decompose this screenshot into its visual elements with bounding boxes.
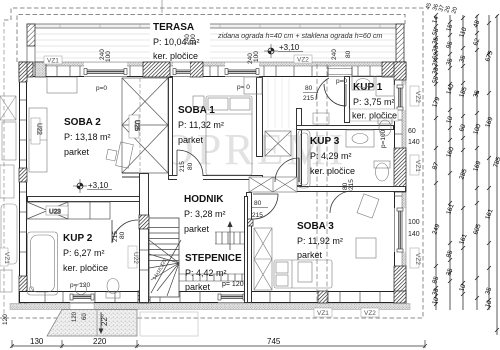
svg-text:80: 80 (305, 85, 313, 92)
svg-text:P: 4,29 m²: P: 4,29 m² (310, 151, 352, 161)
level mark terrace +3,10 (264, 43, 303, 58)
svg-text:215: 215 (112, 231, 119, 242)
svg-text:VZ2: VZ2 (364, 310, 376, 317)
svg-text:U23: U23 (49, 209, 61, 216)
svg-text:VZ2: VZ2 (414, 253, 421, 265)
bottom dimension line (10, 340, 427, 348)
svg-text:VZ1: VZ1 (47, 58, 59, 65)
svg-text:120: 120 (72, 311, 78, 322)
level mark hodnik +3,10 (73, 179, 112, 193)
svg-text:P: 11,92 m²: P: 11,92 m² (297, 236, 343, 246)
stairs STEPENICE (149, 218, 246, 297)
svg-text:ker. pločice: ker. pločice (310, 166, 355, 176)
desk with chair (116, 142, 134, 168)
furniture SOBA2: closet U22 (29, 77, 133, 172)
outer dotted strip (402, 66, 406, 304)
diagonal break line (151, 240, 181, 293)
svg-text:P: 4,42 m²: P: 4,42 m² (185, 268, 227, 278)
svg-text:745: 745 (267, 337, 281, 346)
upper flight risers (215, 232, 217, 244)
svg-text:P: 3,28 m²: P: 3,28 m² (184, 209, 226, 219)
svg-text:+3,10: +3,10 (279, 43, 300, 52)
VZ labels (0, 55, 421, 317)
parapet right return (396, 24, 404, 62)
entrance door gap (328-352) (328, 67, 352, 77)
svg-text:HODNIK: HODNIK (184, 194, 224, 205)
wall KUP3 left (297, 109, 302, 186)
wall SOBA2 / KUP2 horizontal (28, 197, 140, 202)
svg-text:KUP 1: KUP 1 (353, 82, 383, 93)
tiny numbers top-right (425, 2, 459, 15)
room labels (63, 82, 398, 292)
wall stairs left vertical (122, 173, 149, 303)
stair right wall (245, 197, 248, 303)
masonry joints (57, 66, 370, 77)
svg-text:140: 140 (408, 139, 420, 146)
room TERASA label (150, 20, 210, 61)
window band KUP1 right wall (395, 85, 406, 110)
svg-text:p= 0: p= 0 (237, 84, 250, 91)
svg-text:130: 130 (30, 337, 44, 346)
furniture KUP1 (352, 76, 394, 136)
window band SOBA1 (174-190) (173, 63, 190, 77)
foundation dotted strip (10, 304, 410, 310)
svg-text:p=0: p=0 (96, 85, 107, 92)
svg-text:80: 80 (119, 231, 126, 239)
left exterior wall (19, 62, 27, 304)
right dimension chains (436, 15, 497, 335)
svg-text:P: 11,32 m²: P: 11,32 m² (178, 120, 224, 130)
svg-text:U25: U25 (133, 120, 139, 132)
terrace decking lines (36, 34, 395, 58)
interior wall SOBA1 left (169, 78, 173, 180)
svg-text:ker. pločice: ker. pločice (352, 111, 397, 121)
door KUP3 (275, 158, 299, 182)
svg-text:U22: U22 (36, 123, 43, 135)
furniture SOBA1: bed (193, 77, 262, 175)
built-in closet band SOBA2/SOBA1 with X (122, 78, 168, 173)
furniture KUP2 (28, 232, 121, 298)
svg-text:STEPENICE: STEPENICE (185, 253, 242, 264)
wall SOBA3 left (247, 193, 252, 303)
svg-text:VZ1: VZ1 (317, 310, 329, 317)
corridor floor board lines (268, 78, 289, 128)
svg-text:100: 100 (190, 34, 197, 45)
wall KUP1 left (345, 77, 350, 123)
svg-text:KUP 3: KUP 3 (310, 136, 340, 147)
walking line with arrow up (229, 224, 231, 250)
wall KUP1 / KUP3 horizontal (297, 126, 394, 130)
neighbour unit fragments left edge (0, 96, 17, 292)
window band SOBA3 right wall (395, 208, 406, 252)
external ramp (47, 310, 137, 337)
section cut dashed lines VZ (317, 64, 327, 303)
svg-text:parket: parket (297, 250, 323, 260)
svg-text:215: 215 (348, 179, 355, 190)
svg-text:parket: parket (185, 282, 211, 292)
lower flight band (179, 273, 246, 275)
bottom exterior wall (20, 291, 407, 303)
svg-text:80: 80 (187, 162, 194, 170)
door KUP2 (112, 220, 138, 243)
window dim labels rotated (70, 34, 387, 289)
svg-text:P: 3,75 m²: P: 3,75 m² (353, 97, 395, 107)
door entrance arc (316, 78, 329, 100)
svg-text:p=100: p=100 (380, 129, 387, 148)
door KUP3 from SOBA3 (330, 191, 352, 213)
svg-text:60: 60 (408, 128, 416, 135)
svg-text:240: 240 (331, 49, 338, 60)
svg-text:VZ1: VZ1 (3, 252, 10, 264)
svg-text:140: 140 (408, 231, 420, 238)
door SOBA3 (253, 194, 278, 219)
corridor closet with X (265, 131, 291, 156)
svg-text:ker. pločice: ker. pločice (153, 51, 198, 61)
chain tick slashes (434, 13, 499, 332)
svg-text:220: 220 (93, 337, 107, 346)
svg-text:VZ1: VZ1 (414, 160, 421, 172)
corridor bottom closet band with X (249, 177, 297, 192)
svg-text:p=0: p=0 (336, 78, 347, 85)
chain numbers rotated (431, 15, 500, 309)
svg-text:TERASA: TERASA (153, 22, 194, 33)
parapet left return (27, 24, 35, 46)
svg-text:p= 120: p= 120 (70, 282, 90, 289)
svg-text:P: 6,27 m²: P: 6,27 m² (63, 248, 105, 258)
svg-text:SOBA 3: SOBA 3 (297, 221, 334, 232)
wall KUP3 / SOBA3 horizontal (297, 187, 406, 192)
terrace sliding door band (226-258) (225, 63, 259, 77)
furniture KUP3 (298, 130, 390, 188)
svg-text:parket: parket (184, 224, 210, 234)
svg-text:100: 100 (408, 219, 420, 226)
svg-text:215: 215 (303, 95, 314, 102)
svg-text:SOBA 1: SOBA 1 (178, 105, 215, 116)
outer dotted insulation strip (19, 62, 406, 66)
svg-text:P: 13,18 m²: P: 13,18 m² (64, 132, 111, 142)
main top wall band (19, 62, 406, 77)
svg-text:215: 215 (179, 161, 186, 172)
svg-text:VZ2: VZ2 (414, 91, 421, 103)
furniture SOBA3 (254, 194, 379, 290)
door KUP1 (324, 84, 346, 106)
terrace parapet top (27, 24, 404, 62)
window band SOBA2 (85-126) (84, 63, 127, 77)
svg-text:60: 60 (82, 313, 88, 320)
svg-text:U22: U22 (132, 252, 139, 264)
door SOBA1 (177, 150, 203, 176)
hatch piers in top wall (19, 62, 33, 77)
stair step numbers (152, 258, 169, 281)
window band bottom stairs (220-244) (218, 292, 246, 303)
wall SOBA1 bottom (169, 176, 263, 180)
svg-text:80: 80 (345, 50, 352, 58)
svg-text:p= 120: p= 120 (222, 281, 244, 288)
svg-text:215: 215 (252, 212, 263, 219)
svg-text:100: 100 (105, 51, 112, 62)
winder fan (149, 240, 179, 263)
svg-text:SOBA 2: SOBA 2 (64, 117, 101, 128)
svg-text:120: 120 (2, 314, 9, 325)
svg-text:+3,10: +3,10 (88, 181, 109, 190)
svg-text:parket: parket (178, 135, 204, 145)
landing rectangle (140, 312, 198, 336)
door dim labels (112, 85, 355, 242)
window band bottom KUP2 (72-92) (70, 292, 94, 303)
closet U23 band (27, 202, 110, 219)
svg-text:80: 80 (254, 200, 262, 207)
svg-text:parket: parket (64, 147, 90, 157)
wall SOBA1 right / corridor (257, 78, 263, 157)
svg-text:VZ2: VZ2 (297, 57, 309, 64)
svg-text:KUP 2: KUP 2 (63, 233, 93, 244)
svg-text:zidana ograda h=40 cm + stakle: zidana ograda h=40 cm + staklena ograda … (217, 31, 382, 40)
property dashed line outer (0, 8, 423, 318)
right exterior wall (394, 62, 406, 304)
svg-text:100: 100 (253, 51, 260, 62)
svg-text:ker. pločice: ker. pločice (63, 263, 108, 273)
